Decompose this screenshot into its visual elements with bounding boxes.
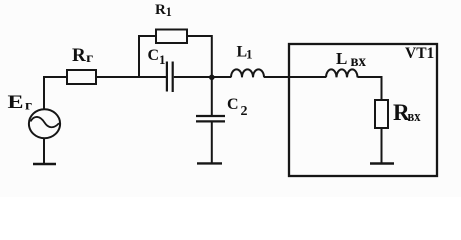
svg-text:2: 2 <box>241 104 248 119</box>
svg-text:вх: вх <box>408 109 422 125</box>
wire: Eг top lead + horizontal to Rг <box>44 77 67 109</box>
svg-text:1: 1 <box>166 4 172 19</box>
voltage source Eг <box>29 109 60 138</box>
resistor R1 <box>156 30 187 44</box>
wire: R1 branch right side down to node <box>187 36 212 77</box>
wire: C2 to ground <box>211 122 213 163</box>
resistor Rг <box>67 70 96 84</box>
wire: Rг to C1 left plate <box>96 76 166 78</box>
box VT1 <box>289 44 437 176</box>
wire: Eг bottom lead <box>43 138 45 163</box>
wire: R1 branch left vertical + top <box>139 36 156 77</box>
svg-text:вх: вх <box>351 53 367 70</box>
svg-text:г: г <box>86 51 93 66</box>
svg-text:г: г <box>25 99 32 114</box>
svg-text:R: R <box>72 45 86 66</box>
ground (Eг) <box>33 163 56 165</box>
svg-text:R: R <box>155 2 166 18</box>
wire: node down to C2 <box>211 77 213 115</box>
svg-text:C: C <box>148 47 160 64</box>
wire: Rвх bottom lead <box>381 128 383 163</box>
svg-text:1: 1 <box>246 47 253 62</box>
inductor Lвх <box>326 69 358 77</box>
ground (Rвх) <box>370 162 394 164</box>
capacitor C1 <box>167 62 173 93</box>
svg-text:E: E <box>8 92 24 113</box>
svg-text:1: 1 <box>159 52 166 67</box>
wire: Lвх to Rвх top <box>358 77 382 100</box>
resistor Rвх <box>375 100 388 128</box>
capacitor C2 <box>196 116 225 121</box>
wire: C1 to L1 (through node) <box>174 76 231 78</box>
wire: L1 into VT1 box to Lвх <box>264 76 326 78</box>
node A junction dot <box>209 75 215 81</box>
inductor L1 <box>231 69 264 77</box>
svg-text:C: C <box>227 96 239 113</box>
svg-text:VT1: VT1 <box>405 45 434 62</box>
ground (C2) <box>197 162 222 164</box>
svg-text:L: L <box>336 49 347 68</box>
